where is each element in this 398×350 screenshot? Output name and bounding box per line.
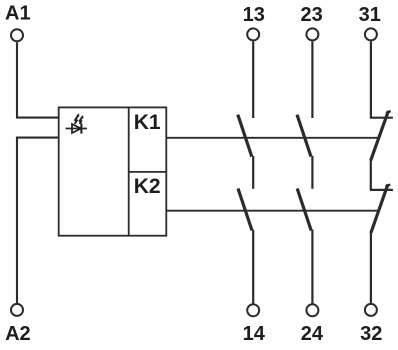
wire link 23-24 mid — [311, 156, 313, 189]
wire link 13-14 mid — [252, 156, 254, 189]
wire to 14 — [252, 230, 254, 304]
wire coil box to A2 — [17, 138, 58, 304]
NC contact blade 31 (K1) — [371, 111, 389, 160]
wire from 31 — [370, 41, 372, 117]
wire from 23 — [311, 41, 313, 118]
svg-text:23: 23 — [300, 4, 322, 26]
NO contact blade 13 (K1) — [238, 115, 252, 157]
wire to 24 — [311, 230, 313, 304]
svg-text:32: 32 — [360, 323, 382, 345]
svg-text:24: 24 — [301, 323, 324, 345]
svg-text:K1: K1 — [134, 111, 161, 134]
NO contact blade 24 (K2) — [297, 189, 311, 231]
wire from 13 — [252, 41, 254, 118]
K2 actuator line — [166, 210, 379, 212]
NC contact blade tip tick 31 — [386, 111, 391, 113]
terminal A2 — [11, 304, 23, 316]
NC contact fixed bar 31 — [370, 117, 393, 119]
LED indicator — [66, 113, 88, 133]
terminal 13 — [247, 28, 259, 40]
terminal A1 — [11, 29, 23, 41]
terminal 32 — [365, 304, 377, 316]
NO contact blade 14 (K2) — [238, 189, 252, 231]
NO contact blade 23 (K1) — [297, 115, 311, 157]
wire to 32 — [370, 232, 372, 303]
svg-text:K2: K2 — [134, 175, 161, 198]
terminal 23 — [306, 28, 318, 40]
svg-text:A1: A1 — [5, 3, 31, 25]
svg-text:13: 13 — [243, 4, 265, 26]
NC contact blade tip tick 32 — [386, 184, 391, 186]
terminal 24 — [306, 304, 318, 316]
terminal 14 — [247, 304, 259, 316]
terminal 31 — [365, 28, 377, 40]
divider between K1 and K2 compartments — [129, 171, 167, 173]
svg-text:14: 14 — [243, 323, 266, 345]
device box (coil unit) — [59, 107, 167, 235]
svg-text:A2: A2 — [5, 323, 31, 345]
svg-text:31: 31 — [359, 4, 381, 26]
NC contact blade 32 (K2) — [371, 184, 388, 233]
divider between coil and relay compartments — [128, 107, 130, 235]
K1 actuator line — [166, 137, 379, 139]
NC contact fixed bar 32 — [370, 189, 393, 191]
wire link 31-32 mid — [370, 160, 372, 190]
wire A1 to coil box — [17, 42, 58, 117]
